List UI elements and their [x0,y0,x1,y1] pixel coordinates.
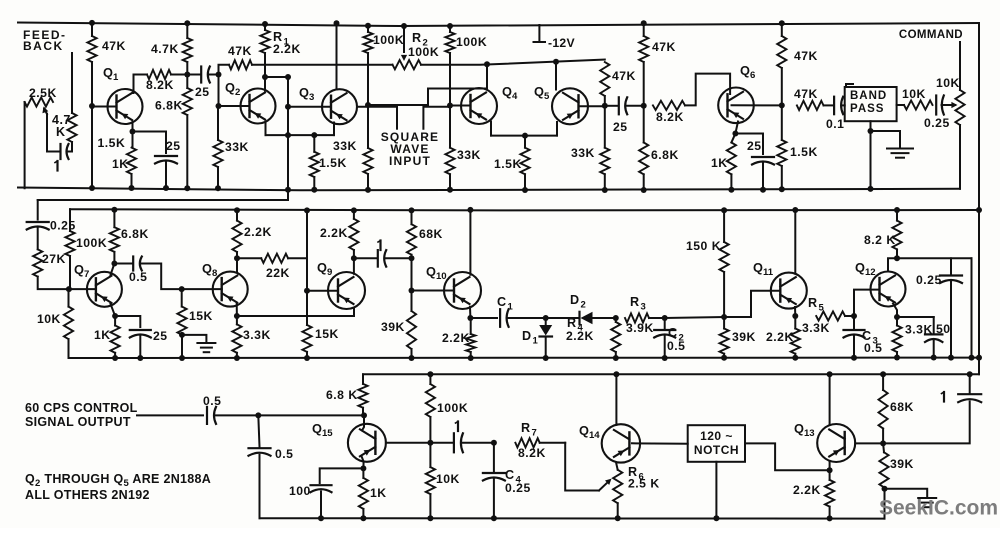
svg-text:0.5: 0.5 [275,447,293,461]
svg-text:0.25: 0.25 [916,273,942,287]
svg-text:39K: 39K [890,457,914,471]
svg-text:7: 7 [532,428,537,439]
svg-text:1.5K: 1.5K [319,156,347,170]
svg-text:0.1: 0.1 [826,117,844,131]
svg-text:R: R [521,421,531,435]
svg-text:K: K [56,125,66,139]
svg-text:0.25: 0.25 [505,481,531,495]
svg-text:INPUT: INPUT [389,154,431,168]
svg-text:1K: 1K [112,157,129,171]
svg-text:60 CPS CONTROL: 60 CPS CONTROL [25,401,138,415]
svg-text:27K: 27K [42,252,66,266]
svg-text:ALL OTHERS 2N192: ALL OTHERS 2N192 [25,488,150,502]
svg-text:2.2K: 2.2K [273,42,301,56]
svg-text:100K: 100K [76,236,107,250]
svg-text:25: 25 [153,329,168,343]
svg-text:1K: 1K [711,156,728,170]
svg-text:0.5: 0.5 [129,270,147,284]
svg-text:39K: 39K [732,330,756,344]
svg-text:3.9K: 3.9K [626,321,654,335]
svg-text:1K: 1K [94,328,111,342]
svg-text:2.2K: 2.2K [793,483,821,497]
svg-text:6.8K: 6.8K [121,227,149,241]
svg-text:68K: 68K [419,227,443,241]
svg-text:33K: 33K [571,146,595,160]
svg-text:NOTCH: NOTCH [694,443,739,457]
svg-text:2: 2 [581,300,586,311]
svg-text:47K: 47K [794,49,818,63]
svg-text:33K: 33K [457,148,481,162]
svg-text:6.8K: 6.8K [651,148,679,162]
svg-text:1.5K: 1.5K [98,136,126,150]
svg-text:0.5: 0.5 [864,341,882,355]
svg-text:1.5K: 1.5K [494,157,522,171]
svg-text:PASS: PASS [850,103,884,115]
svg-text:0.25: 0.25 [924,116,950,130]
svg-text:15K: 15K [189,309,213,323]
svg-text:8.2K: 8.2K [656,110,684,124]
svg-text:100K: 100K [408,45,439,59]
svg-text:3.3K: 3.3K [802,321,830,335]
svg-text:COMMAND: COMMAND [899,29,963,41]
svg-text:2.2K: 2.2K [320,226,348,240]
svg-text:3.3K: 3.3K [243,328,271,342]
svg-text:47K: 47K [612,69,636,83]
svg-text:R: R [630,295,640,309]
svg-text:D: D [570,293,580,307]
svg-text:47K: 47K [102,39,126,53]
svg-text:25: 25 [613,120,628,134]
svg-text:10K: 10K [902,87,926,101]
svg-text:25: 25 [195,85,210,99]
svg-text:C: C [668,326,678,340]
svg-text:BAND: BAND [850,90,887,102]
svg-text:8.2K: 8.2K [518,446,546,460]
svg-text:2.2K: 2.2K [766,330,794,344]
svg-text:4.7K: 4.7K [151,42,179,56]
svg-text:1: 1 [533,336,539,347]
svg-text:C: C [505,468,515,482]
svg-text:15K: 15K [315,327,339,341]
svg-text:39K: 39K [381,320,405,334]
svg-text:2.2K: 2.2K [442,331,470,345]
svg-text:2.2K: 2.2K [566,329,594,343]
svg-text:33K: 33K [225,140,249,154]
svg-text:47K: 47K [794,87,818,101]
svg-text:2.2K: 2.2K [244,225,272,239]
svg-text:120 ~: 120 ~ [700,429,733,443]
svg-text:3: 3 [641,302,646,313]
svg-text:0.5: 0.5 [667,339,685,353]
svg-text:10K: 10K [37,312,61,326]
svg-text:R: R [808,296,818,310]
svg-text:47K: 47K [228,44,252,58]
svg-text:22K: 22K [266,266,290,280]
svg-text:BACK: BACK [23,39,64,53]
svg-text:6.8K: 6.8K [155,99,183,113]
svg-text:8.2 K: 8.2 K [864,233,896,247]
svg-text:68K: 68K [890,400,914,414]
svg-text:8.2K: 8.2K [146,78,174,92]
svg-text:25: 25 [747,139,762,153]
svg-text:6.8 K: 6.8 K [326,388,358,402]
svg-text:25: 25 [166,139,181,153]
svg-text:C: C [497,295,507,309]
svg-text:100K: 100K [456,35,487,49]
svg-text:D: D [522,329,532,343]
svg-text:2.5K: 2.5K [29,86,57,100]
svg-text:47K: 47K [652,40,676,54]
svg-text:0.25: 0.25 [50,219,76,233]
svg-text:2.5 K: 2.5 K [628,477,660,491]
svg-text:10K: 10K [436,472,460,486]
svg-text:50: 50 [936,322,951,336]
svg-text:R: R [412,31,422,45]
svg-text:10K: 10K [936,76,960,90]
svg-text:R: R [567,316,577,330]
svg-text:1: 1 [508,302,514,313]
svg-text:1.5K: 1.5K [790,145,818,159]
svg-text:0.5: 0.5 [203,394,221,408]
svg-text:SIGNAL OUTPUT: SIGNAL OUTPUT [25,415,131,429]
svg-text:5: 5 [819,303,825,314]
svg-text:SeekIC.com: SeekIC.com [879,497,998,520]
svg-text:100K: 100K [373,33,404,47]
svg-text:100K: 100K [437,401,468,415]
svg-text:33K: 33K [333,139,357,153]
svg-text:100: 100 [289,484,311,498]
svg-text:150 K: 150 K [686,239,721,253]
svg-text:-12V: -12V [548,36,576,50]
svg-text:1K: 1K [370,486,387,500]
